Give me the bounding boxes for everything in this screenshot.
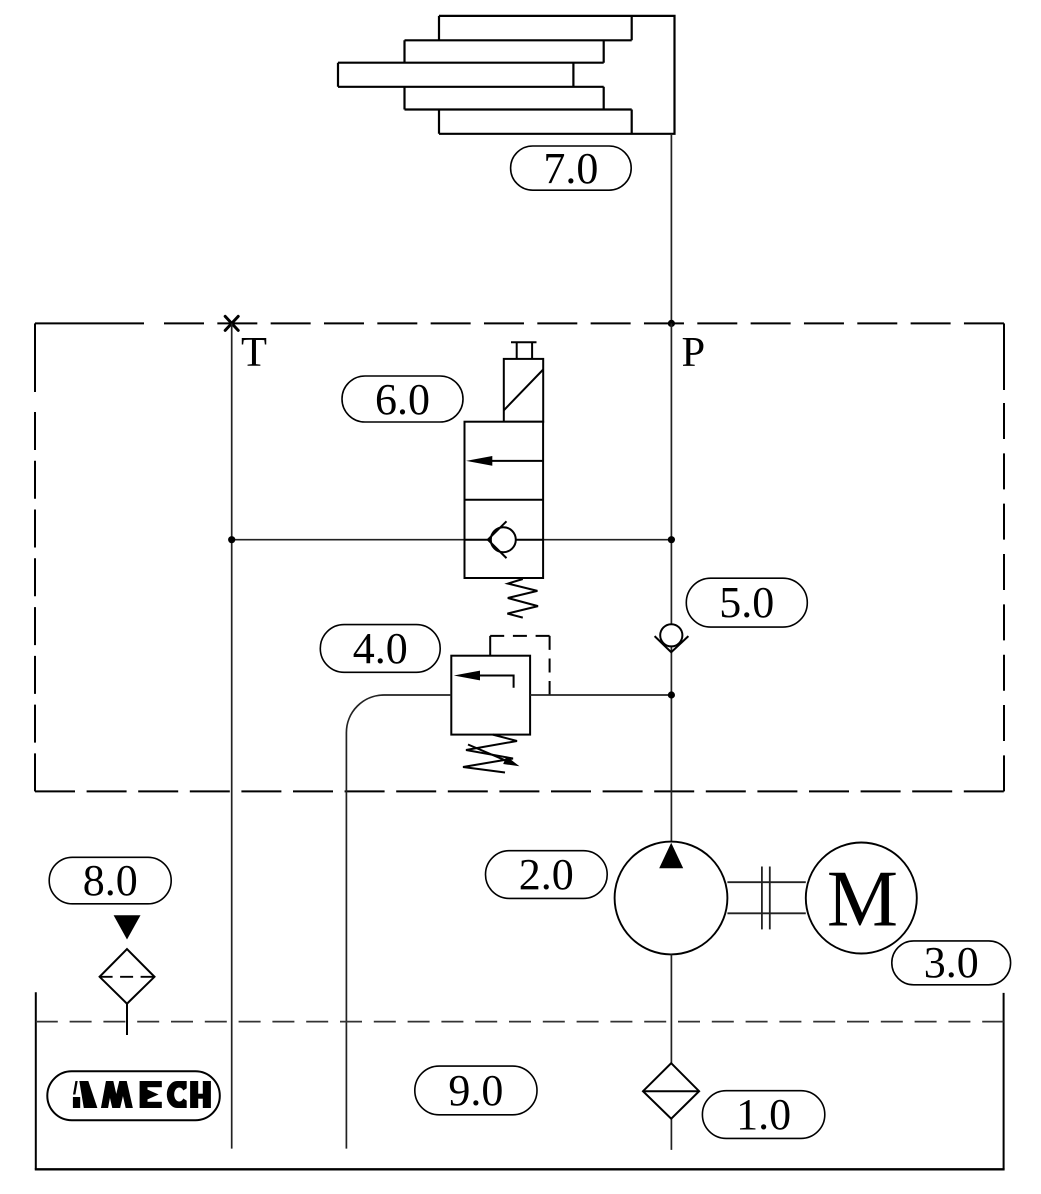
- svg-text:5.0: 5.0: [719, 578, 774, 627]
- filter 1.0 strainer: [643, 1063, 699, 1119]
- node T junction dot: [228, 536, 235, 543]
- letter C: [167, 1081, 187, 1108]
- valve spring: [507, 579, 538, 618]
- manifold enclosure (dashed): [35, 323, 1004, 791]
- coupling: [762, 867, 770, 930]
- check valve ball in body: [465, 539, 544, 541]
- fluid level dashed: [36, 1021, 1004, 1023]
- valve U6 solenoid cartridge valve 6.0: [465, 342, 544, 617]
- wire valve 6.0 to T line: [232, 539, 465, 541]
- flow arrow (open position): [479, 460, 543, 462]
- svg-text:1.0: 1.0: [736, 1090, 791, 1139]
- letter E: [140, 1081, 148, 1108]
- label 3.0: [892, 938, 1011, 987]
- pilot dashed line: [489, 636, 491, 656]
- relief valve 4.0: [451, 636, 549, 773]
- label 1.0: [702, 1090, 824, 1139]
- body divider: [465, 499, 544, 501]
- letter M: [104, 1081, 129, 1110]
- wire valve 6.0 to P line: [543, 539, 671, 541]
- svg-text:M: M: [827, 856, 898, 944]
- wire P line inside manifold down to pump: [670, 323, 672, 841]
- wire P from cylinder to manifold: [670, 134, 672, 324]
- svg-text:3.0: 3.0: [924, 938, 979, 987]
- solenoid connector pins: [511, 342, 537, 359]
- svg-text:6.0: 6.0: [375, 375, 430, 424]
- wire relief valve outlet to P node: [530, 694, 671, 696]
- relief spring: [463, 735, 517, 773]
- label 7.0: [511, 144, 632, 193]
- label 4.0: [320, 624, 440, 673]
- node relief/P junction dot: [668, 691, 675, 698]
- valve square: [451, 656, 530, 735]
- label 5.0: [686, 578, 807, 627]
- label 2.0: [486, 850, 608, 899]
- letter A: [79, 1081, 97, 1108]
- adjustment arrow: [468, 745, 506, 761]
- cylinder 7.0 telescopic: [338, 16, 675, 134]
- valve body: [465, 422, 544, 578]
- solenoid coil: [504, 359, 543, 422]
- svg-text:9.0: 9.0: [448, 1066, 503, 1115]
- svg-text:4.0: 4.0: [353, 624, 408, 673]
- tank outline: [35, 992, 1005, 1169]
- label 6.0: [342, 375, 463, 424]
- node P mid junction dot: [668, 536, 675, 543]
- svg-text:T: T: [241, 329, 267, 376]
- svg-text:2.0: 2.0: [519, 850, 574, 899]
- shaft pump-motor: [727, 882, 805, 913]
- motor 3.0: [806, 843, 917, 954]
- check valve 5.0: [655, 624, 689, 652]
- wire T line down to tank: [231, 323, 233, 1148]
- svg-text:7.0: 7.0: [543, 144, 598, 193]
- logo AMECH: [47, 1071, 220, 1120]
- port T x-mark: [225, 316, 238, 330]
- label 9.0: [415, 1066, 537, 1115]
- letter H: [190, 1081, 198, 1108]
- internal arrow: [479, 676, 514, 688]
- svg-text:P: P: [682, 329, 706, 376]
- label 8.0: [49, 856, 171, 905]
- svg-text:8.0: 8.0: [83, 856, 138, 905]
- wire pump suction to filter and below: [670, 954, 672, 1150]
- node P junction dot: [668, 320, 675, 327]
- breather 8.0: [100, 915, 155, 1035]
- wire relief valve inlet drain to tank: [346, 695, 451, 1149]
- pump 2.0: [615, 842, 728, 955]
